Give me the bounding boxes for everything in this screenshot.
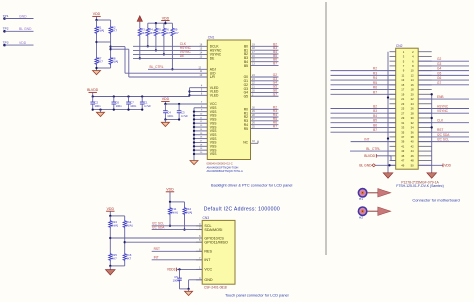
svg-text:26: 26: [411, 107, 414, 111]
svg-text:23: 23: [401, 102, 404, 106]
svg-text:B5: B5: [373, 119, 377, 123]
svg-text:44: 44: [411, 149, 414, 153]
CN3 pin names: [204, 224, 228, 282]
svg-text:VCC: VCC: [204, 268, 212, 272]
wire net B6 from CN1 pin 15: [251, 58, 279, 62]
wire net RST from CN2: [418, 128, 469, 132]
wire net G4 from CN1 pin 22: [251, 81, 279, 85]
svg-text:16: 16: [411, 83, 414, 87]
svg-text:L/R: L/R: [210, 75, 216, 79]
svg-text:21: 21: [401, 97, 404, 101]
wire net R2 from CN1 pin 30: [251, 105, 279, 109]
svg-text:4K7: 4K7: [112, 29, 118, 33]
svg-text:R7: R7: [373, 90, 377, 94]
svg-text:GPIO11/MISO: GPIO11/MISO: [204, 241, 228, 245]
power port VDD (I2C pull-ups): [166, 188, 174, 202]
pin numbers 11,10 for U/D,L/R: [200, 70, 203, 77]
wire VDD rail to R1/R2 tops: [95, 19, 110, 21]
wire net B3 to CN2: [331, 109, 396, 113]
wire net G6 from CN2: [418, 76, 469, 80]
svg-text:I2C SCL: I2C SCL: [437, 138, 449, 142]
ground (CN2 left): [383, 165, 393, 178]
svg-text:4.7uF: 4.7uF: [181, 114, 188, 118]
svg-text:43: 43: [401, 149, 404, 153]
ground (C4/C3): [161, 122, 169, 126]
mounting hole H1: [358, 189, 366, 202]
svg-text:R5: R5: [244, 127, 248, 131]
wire net BL_CTRL to CN2: [350, 147, 396, 151]
arrow at H1: [367, 189, 391, 197]
wire net G5 from CN2: [418, 71, 469, 75]
svg-text:B5: B5: [244, 64, 248, 68]
svg-text:CN1: CN1: [208, 36, 215, 40]
svg-text:BLVDD: BLVDD: [364, 154, 375, 158]
wire net CLK to CN1 pin 16: [133, 42, 207, 46]
wire net G6 from CN1 pin 20: [251, 88, 279, 92]
resistor R2 4K7: [109, 20, 117, 35]
svg-text:INT: INT: [204, 258, 211, 262]
svg-text:R2: R2: [373, 67, 377, 71]
svg-text:BLVDD: BLVDD: [87, 88, 99, 92]
wire net RST to CN3: [152, 247, 203, 251]
svg-text:48: 48: [411, 159, 414, 163]
CN1 left pin names: [210, 45, 222, 157]
svg-text:100n: 100n: [130, 104, 136, 108]
CN1 alt part AM-64800GFTNQW-T00H: [207, 165, 239, 169]
svg-text:30: 30: [411, 116, 414, 120]
power port VDD (top-left divider): [92, 12, 100, 20]
wire net HSYNC to CN1 pin 15: [133, 46, 207, 50]
svg-text:CN3: CN3: [203, 216, 210, 220]
svg-text:22: 22: [411, 97, 414, 101]
svg-text:B2: B2: [373, 104, 377, 108]
ground (CN2 right): [427, 173, 437, 178]
resistor R9 4K7: [171, 23, 179, 37]
svg-text:Connector for motherboard: Connector for motherboard: [412, 197, 459, 202]
svg-text:C4: C4: [167, 110, 171, 114]
wire net I2C SCL to CN3: [152, 222, 203, 226]
CN2 part FTSH-125-01-F-DV-K (Samtec): [396, 184, 443, 188]
wire mid junction right column: [109, 35, 111, 57]
svg-text:C2: C2: [95, 100, 99, 104]
svg-text:R5: R5: [373, 81, 377, 85]
svg-text:DE: DE: [180, 54, 184, 58]
svg-text:FTSH-125-01-F-DV-K (Samtec): FTSH-125-01-F-DV-K (Samtec): [396, 184, 443, 188]
wire net VSYNC from CN2: [418, 109, 469, 113]
svg-text:25: 25: [401, 107, 404, 111]
power port BLVDD to CN2 pin 47: [364, 154, 395, 161]
svg-text:11: 11: [402, 73, 405, 77]
CN1 NC pin: [243, 140, 258, 144]
svg-text:20: 20: [411, 92, 414, 96]
CN3 part number CSF-2401-0818: [204, 285, 227, 289]
arrow at H2: [367, 207, 391, 215]
wire net R3 to CN2: [331, 71, 396, 75]
svg-text:NC: NC: [243, 140, 248, 144]
svg-text:BL GND: BL GND: [19, 27, 32, 31]
svg-text:CLK: CLK: [437, 119, 444, 123]
power port VDD (center): [161, 97, 169, 104]
CN2 part number P1278-2*25MGF-079-1A: [401, 180, 439, 184]
wire R6 pull-up to row: [163, 37, 165, 56]
svg-text:VDD: VDD: [166, 188, 174, 192]
wire net INT to CN2: [351, 137, 396, 141]
svg-text:C3: C3: [181, 110, 185, 114]
power port VDD3 to CN3 VCC: [167, 268, 202, 272]
capacitor C3 4.7uF: [177, 104, 188, 120]
wire cap bank bottom rail: [92, 108, 144, 112]
resistor R12 [N/A]: [183, 202, 193, 216]
power port VDD arrow (pull-up bank): [137, 16, 142, 27]
svg-text:R7: R7: [273, 125, 277, 129]
wire CN2 left GND bus: [387, 52, 389, 166]
svg-text:I2C SDA: I2C SDA: [152, 226, 165, 230]
CN3 pin stubs and numbers: [196, 223, 202, 280]
wire R9 pull-up to row: [171, 37, 173, 70]
svg-text:G7: G7: [437, 81, 441, 85]
svg-text:Default I2C Address: 1000000: Default I2C Address: 1000000: [204, 206, 280, 212]
wire net B5 to CN2: [331, 119, 396, 123]
wire net G2 from CN2: [418, 57, 469, 61]
svg-text:100n: 100n: [95, 104, 101, 108]
resistor R8 [N/A]: [109, 56, 118, 65]
capacitor C4 100n: [163, 104, 174, 120]
wire net R6 from CN1 pin 26: [251, 121, 279, 125]
svg-text:BL GND: BL GND: [359, 163, 372, 167]
wire R3 pull-up to row: [139, 37, 141, 60]
resistor R16 4K7: [123, 253, 132, 262]
svg-text:47: 47: [401, 159, 404, 163]
svg-text:28: 28: [411, 111, 414, 115]
svg-text:C1: C1: [144, 100, 148, 104]
svg-text:42: 42: [411, 144, 414, 148]
capacitor C2 100n: [90, 97, 101, 110]
CN2 pin numbers: [401, 50, 414, 168]
svg-text:BL_CTRL: BL_CTRL: [150, 65, 164, 69]
wire net R4 to CN2: [331, 76, 396, 80]
svg-text:50: 50: [411, 163, 414, 167]
svg-text:CN2: CN2: [396, 44, 403, 48]
svg-text:RST: RST: [437, 128, 443, 132]
svg-text:DE: DE: [210, 57, 215, 61]
wire net BL_CTRL to CN1 pin 12: [148, 65, 207, 69]
svg-text:HSYNC: HSYNC: [437, 104, 449, 108]
wire BLVDD rail: [92, 95, 190, 97]
svg-text:38: 38: [411, 135, 414, 139]
wire CN3 GND to ground: [180, 280, 203, 292]
svg-text:G3: G3: [437, 62, 441, 66]
wire net R5 to CN2: [331, 81, 396, 85]
wire GPIO11 net from divider: [124, 229, 203, 253]
svg-text:[N/A]: [N/A]: [126, 224, 133, 228]
wire net B4 to CN2: [331, 114, 396, 118]
svg-text:TP1: TP1: [3, 14, 9, 18]
connector CN3 body: [202, 216, 235, 284]
wire R12 to I2C SDA: [183, 216, 185, 231]
svg-text:[N/A]: [N/A]: [171, 211, 178, 215]
wire VSS bus with stubs: [193, 106, 207, 161]
wire net R7 from CN1 pin 25: [251, 125, 279, 129]
wire net B3 from CN1 pin 18: [251, 46, 279, 50]
wire R11 to I2C SCL: [169, 216, 171, 227]
svg-text:ENB: ENB: [437, 95, 444, 99]
power port VDD (touch divider): [106, 207, 114, 216]
svg-text:G7: G7: [273, 92, 277, 96]
svg-text:Touch panel connector for LCD: Touch panel connector for LCD panel: [225, 294, 289, 298]
svg-text:R4: R4: [373, 76, 377, 80]
wire net INT to CN3: [152, 256, 203, 260]
resistor R1 [N/A]: [95, 20, 104, 35]
svg-text:10: 10: [411, 69, 414, 73]
svg-text:R6: R6: [373, 86, 377, 90]
svg-text:100n: 100n: [167, 114, 173, 118]
svg-text:100n: 100n: [116, 104, 122, 108]
svg-text:35: 35: [401, 130, 404, 134]
wire mid junction left column: [95, 35, 110, 57]
svg-text:G5: G5: [244, 94, 249, 98]
svg-text:G6: G6: [437, 76, 441, 80]
test point TP1: [3, 14, 9, 20]
wire net HSYNC from CN2: [418, 104, 469, 108]
svg-text:TP3: TP3: [3, 41, 9, 45]
svg-text:33: 33: [401, 126, 404, 130]
ground (CN3): [185, 291, 193, 295]
svg-text:VDD: VDD: [162, 97, 170, 101]
CN1 alt part AM-64800BGFTNQW-T07H-A: [207, 169, 243, 173]
wire net G3 from CN2: [418, 62, 469, 66]
svg-text:41: 41: [401, 144, 404, 148]
wire net G2 from CN1 pin 24: [251, 73, 279, 77]
svg-text:15: 15: [401, 83, 404, 87]
wire VDD rail touch divider: [109, 215, 125, 217]
resistor R4 4K7: [146, 23, 154, 37]
wire net B2 from CN1 pin 19: [251, 42, 279, 46]
svg-text:VSS: VSS: [210, 152, 217, 156]
svg-text:12: 12: [411, 73, 414, 77]
test point TP2: [3, 27, 9, 33]
svg-text:VLED: VLED: [210, 94, 219, 98]
svg-text:SDA/MOSI: SDA/MOSI: [204, 228, 222, 232]
wire VDD rail to CN1 VCC pin 7: [164, 101, 207, 105]
wire net G7 from CN1 pin 2: [251, 92, 279, 96]
ground (divider): [93, 71, 101, 75]
wire VLED riser from BLVDD rail: [188, 85, 207, 97]
svg-text:14: 14: [411, 78, 414, 82]
svg-text:AM-64800BGFTNQW-T07H-A: AM-64800BGFTNQW-T07H-A: [207, 169, 243, 173]
wire net B6 to CN2: [331, 123, 396, 127]
capacitor C6 100n: [112, 97, 123, 110]
wire net R7 to CN2: [331, 90, 396, 94]
resistor R6 4K7: [162, 23, 170, 37]
wire net G7 from CN2: [418, 81, 469, 85]
title: Default I2C Address: 1000000: [204, 206, 280, 212]
resistor R3 4K7: [138, 27, 146, 37]
CN1 part number 009040-000000-G2-C: [207, 162, 233, 166]
wire net R2 to CN2: [331, 67, 396, 71]
wire CN2 right GND bus: [431, 93, 433, 173]
svg-text:Backlight driver & PTC connect: Backlight driver & PTC connector for LCD…: [211, 183, 293, 187]
svg-text:37: 37: [401, 135, 404, 139]
svg-text:13: 13: [401, 78, 404, 82]
svg-text:H2: H2: [359, 216, 363, 220]
title: Backlight driver & PTC connector for LCD panel: [211, 183, 293, 187]
wire L/R net to CN1: [111, 49, 208, 77]
wire net R3 from CN1 pin 29: [251, 109, 279, 113]
svg-text:RES: RES: [204, 250, 212, 254]
svg-text:19: 19: [401, 92, 404, 96]
wire net B7 from CN1 pin 13: [251, 62, 279, 66]
resistor R7 4K7: [95, 56, 103, 65]
svg-text:46: 46: [411, 154, 414, 158]
ground (CN1 VSS): [190, 161, 198, 165]
wire net R6 to CN2: [331, 86, 396, 90]
svg-text:AM-64800GFTNQW-T00H: AM-64800GFTNQW-T00H: [207, 165, 239, 169]
mounting hole H2: [358, 207, 366, 220]
svg-text:32: 32: [411, 121, 414, 125]
svg-text:INT: INT: [364, 137, 369, 141]
svg-text:B3: B3: [373, 109, 377, 113]
wire R4 pull-up to row: [147, 37, 149, 47]
svg-text:H1: H1: [359, 197, 363, 201]
svg-text:VDD: VDD: [93, 12, 101, 16]
wire net B4 from CN1 pin 17: [251, 50, 279, 54]
power port BLVDD: [87, 88, 99, 96]
CN2 right pin stubs: [418, 52, 432, 166]
svg-text:B6: B6: [373, 123, 377, 127]
power port BLGND to CN2 pin 49: [359, 163, 395, 167]
wire net I2C SDA to CN3: [152, 226, 203, 230]
wire R5 pull-up to row: [155, 37, 157, 52]
title: Touch panel connector for LCD panel: [225, 294, 289, 298]
svg-text:100nF: 100nF: [173, 279, 181, 283]
wire net ENB from CN2: [418, 95, 469, 99]
wire VDD rail I2C pull-ups: [169, 201, 185, 203]
svg-text:18: 18: [411, 88, 414, 92]
wire C4/C3 bottom rail: [164, 118, 180, 122]
svg-text:31: 31: [401, 121, 404, 125]
svg-text:[N/A]: [N/A]: [112, 224, 119, 228]
resistor R11 [N/A]: [168, 202, 178, 216]
svg-text:CSF-2401-0818: CSF-2401-0818: [204, 285, 227, 289]
svg-text:40: 40: [411, 140, 414, 144]
svg-text:[N/A]: [N/A]: [112, 60, 119, 64]
wire net B2 to CN2: [331, 104, 396, 108]
wire net VDD from TP3: [5, 41, 34, 45]
capacitor C5 100nF: [173, 269, 182, 289]
svg-text:B7: B7: [273, 62, 277, 66]
svg-text:4K7: 4K7: [174, 31, 179, 35]
wire net I2C SCL from CN2: [418, 138, 469, 142]
svg-text:C7: C7: [130, 100, 134, 104]
connector CN1 body: [207, 36, 250, 160]
svg-text:VDD: VDD: [107, 207, 115, 211]
CN2 left pin stubs: [390, 52, 396, 166]
wire net G5 from CN1 pin 21: [251, 85, 279, 89]
resistor R13 [N/A]: [109, 216, 119, 229]
wire net DE to CN1 pin 13: [133, 54, 207, 58]
svg-text:4.7uF: 4.7uF: [144, 104, 151, 108]
svg-text:B4: B4: [373, 114, 377, 118]
svg-text:C6: C6: [116, 100, 120, 104]
svg-text:VDD: VDD: [444, 163, 451, 167]
resistor R14 [N/A]: [123, 216, 133, 229]
CN1 pin names G0-G5: [244, 75, 249, 98]
svg-text:G5: G5: [437, 71, 441, 75]
svg-text:29: 29: [401, 116, 404, 120]
svg-text:G2: G2: [437, 57, 441, 61]
CN1 pin names R0-R5: [244, 108, 248, 131]
power port VDD at CN2 pin 50: [418, 163, 451, 167]
connector CN2 body: [396, 44, 419, 169]
wire net CLK from CN2: [418, 119, 469, 123]
svg-text:24: 24: [411, 102, 414, 106]
test point TP3: [3, 41, 9, 47]
svg-text:17: 17: [401, 88, 404, 92]
svg-text:BL_CTRL: BL_CTRL: [366, 147, 380, 151]
svg-text:I2C SDA: I2C SDA: [437, 133, 450, 137]
svg-text:VDD: VDD: [19, 41, 27, 45]
svg-text:49: 49: [401, 163, 404, 167]
svg-text:INT: INT: [154, 256, 159, 260]
power port VDD (pull-up bank): [161, 16, 169, 23]
wire net VSYNC to CN1 pin 14: [133, 50, 207, 54]
wire net GND from TP1: [5, 14, 34, 18]
wire net R5 from CN1 pin 27: [251, 117, 279, 121]
svg-text:4K7: 4K7: [166, 31, 171, 35]
svg-text:45: 45: [401, 154, 404, 158]
svg-text:TP2: TP2: [3, 27, 9, 31]
svg-text:VSYNC: VSYNC: [437, 109, 449, 113]
svg-text:4K7: 4K7: [126, 257, 132, 261]
svg-text:C5: C5: [174, 275, 178, 279]
wire net B5 from CN1 pin 16: [251, 54, 279, 58]
resistor R5 4K7: [154, 23, 162, 37]
svg-text:27: 27: [401, 111, 404, 115]
svg-text:VDD: VDD: [162, 16, 170, 20]
svg-text:4K7: 4K7: [98, 60, 104, 64]
svg-text:B7: B7: [373, 128, 377, 132]
wire net G3 from CN1 pin 23: [251, 77, 279, 81]
svg-text:[N/A]: [N/A]: [98, 29, 105, 33]
svg-text:4K7: 4K7: [112, 257, 118, 261]
svg-text:R3: R3: [373, 71, 377, 75]
wire net R4 from CN1 pin 28: [251, 113, 279, 117]
svg-text:009040-000000-G2-C: 009040-000000-G2-C: [207, 162, 233, 166]
capacitor C1 4.7uF: [140, 97, 151, 110]
fold line: [325, 2, 327, 255]
wire U/D net to CN1: [111, 47, 208, 74]
svg-text:GND: GND: [19, 14, 27, 18]
wire net BL GND from TP2: [5, 27, 34, 31]
wire bottom rail of divider: [95, 66, 110, 71]
svg-text:RST: RST: [154, 247, 160, 251]
wire bottom rail touch divider: [109, 262, 125, 268]
wire net I2C SDA from CN2: [418, 133, 469, 137]
ground (touch divider): [106, 266, 116, 275]
wire GPIO10 net from divider: [109, 229, 202, 253]
svg-text:39: 39: [401, 140, 404, 144]
svg-text:[N/A]: [N/A]: [186, 211, 193, 215]
wire net G4 from CN2: [418, 67, 469, 71]
svg-text:G4: G4: [437, 67, 441, 71]
title: Connector for motherboard: [412, 197, 459, 202]
svg-text:36: 36: [411, 130, 414, 134]
wire VDD rail over pull-up bank: [148, 22, 173, 24]
capacitor C7 100n: [126, 97, 137, 110]
svg-text:34: 34: [411, 126, 414, 130]
svg-text:VDD3: VDD3: [167, 268, 176, 272]
ground (cap bank): [97, 112, 105, 116]
